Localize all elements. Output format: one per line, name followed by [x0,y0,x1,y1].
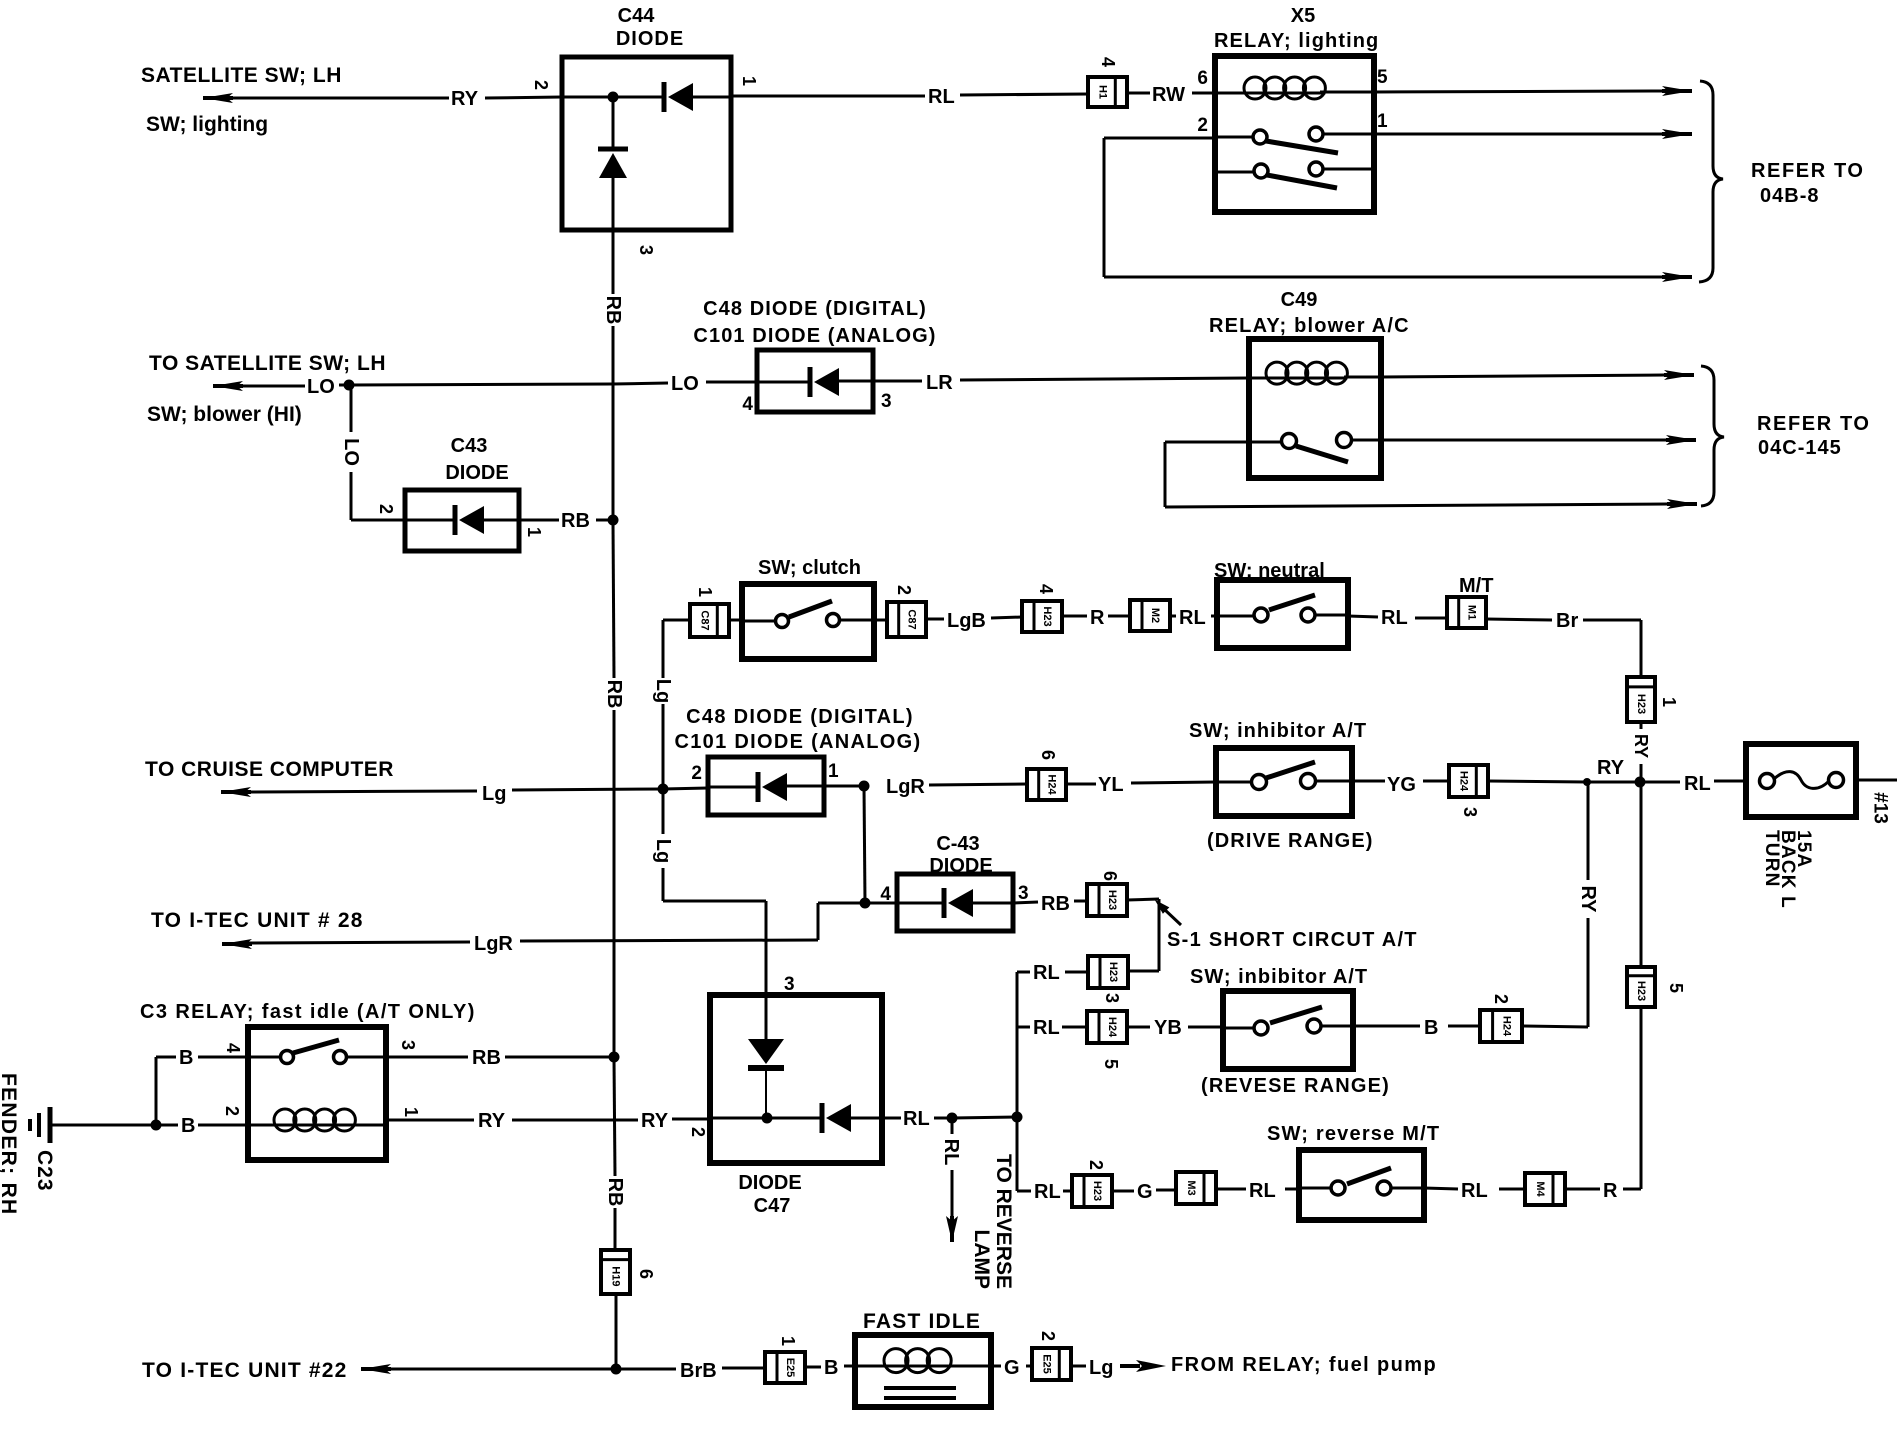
wire label RB (C43 row) [561,510,590,532]
svg-text:C23: C23 [33,1150,56,1192]
svg-text:RB: RB [603,680,625,709]
wire label Lg (vertical 2) [652,839,674,863]
svg-text:3: 3 [1018,883,1029,904]
wire label R (reverse out) [1603,1180,1618,1202]
relay C49 contact [1249,433,1381,463]
svg-text:C101 DIODE (ANALOG): C101 DIODE (ANALOG) [675,731,922,753]
relay X5 coil [1215,77,1374,99]
svg-text:LO: LO [340,438,362,466]
connector M2 [1130,600,1170,631]
svg-text:DIODE: DIODE [616,28,684,50]
svg-text:1: 1 [695,587,715,597]
svg-text:2: 2 [376,504,396,514]
svg-text:SW; inhibitor A/T: SW; inhibitor A/T [1189,720,1367,742]
svg-text:1: 1 [778,1336,798,1346]
pin 5 of H24 (reverse-range in) [1101,1059,1121,1069]
wire Lg vertical (junction down) [662,791,665,901]
connector H23 (reverse) [1072,1175,1112,1207]
wire RL from C44 to H1 [731,94,1088,96]
svg-text:C-43: C-43 [936,833,979,855]
pin 2 of C87 (right) [894,585,914,595]
diode C48/C101 label 2 [675,706,922,753]
junction dot reverse lamp [947,1113,958,1124]
wire label RL (S1) [1033,962,1060,984]
svg-text:2: 2 [1038,1331,1058,1341]
wire label RL (C47 out) [903,1108,930,1130]
switch SW; neutral box [1217,580,1348,648]
switch SW; neutral label [1214,560,1325,582]
svg-text:C48 DIODE (DIGITAL): C48 DIODE (DIGITAL) [703,298,927,320]
svg-text:4: 4 [223,1043,243,1053]
relay C3 contact [248,1040,386,1064]
wire B to reverse-range box [1353,1025,1480,1028]
wire loop from X5 pin 2 [1104,138,1692,282]
switch SW; inhibitor A/T label [1189,720,1367,742]
junction dot RB/C3 [609,1052,620,1063]
diode C43 element [405,505,519,535]
label FROM RELAY; fuel pump [1171,1354,1437,1376]
relay X5 contact row 2 [1215,162,1374,188]
wire RL to reverse box [1216,1188,1299,1191]
wire C3 pin1 to C47 pin2 [386,1119,710,1120]
wire label LO (vertical) [340,438,362,466]
wire RY to C44 pin 2 [485,97,562,98]
label TO REVERSE LAMP [970,1154,1015,1289]
arrow from relay fuel pump [1120,1360,1166,1372]
svg-text:H24: H24 [1457,771,1469,792]
switch clutch contacts [742,601,874,628]
svg-text:REFER TO: REFER TO [1751,160,1865,182]
connector H24 (inhibitor out) [1449,765,1488,797]
wire junction to RL vertical [952,1117,1017,1118]
switch SW; reverse M/T box [1299,1150,1424,1220]
wire label RW [1152,84,1185,106]
svg-text:TO SATELLITE SW; LH: TO SATELLITE SW; LH [149,352,386,375]
wire LO vertical [351,385,405,520]
wire label RL (H24-5) [1033,1017,1060,1039]
heater FAST IDLE coil [855,1349,991,1373]
wire RB vertical (lower) [614,1059,615,1250]
wire label LR [926,372,953,394]
svg-text:RL: RL [940,1139,962,1166]
svg-text:1: 1 [1377,111,1388,132]
switch SW; inhibitor A/T box [1216,748,1352,816]
relay C49 box [1249,339,1381,478]
svg-text:#13: #13 [1870,792,1891,824]
svg-text:RY: RY [1597,757,1625,779]
pin 3 of C3 [398,1040,418,1050]
diode C48 element (cruise) [708,772,824,802]
pin 1 of H23 (Br drop) [1659,697,1679,707]
wire LO to C48 pin 4 [706,381,757,384]
svg-text:FAST IDLE: FAST IDLE [863,1310,981,1333]
svg-text:H23: H23 [1041,606,1053,626]
svg-text:SW; reverse M/T: SW; reverse M/T [1267,1123,1440,1145]
wire to I-TEC 28 (arrow) [222,939,470,949]
pin 4 of H1 [1098,57,1118,67]
pin 1 of C44 [739,76,759,86]
svg-text:H19: H19 [610,1266,622,1286]
wire Lg vertical (clutch to junction) [662,620,665,789]
svg-text:M2: M2 [1149,608,1161,623]
svg-text:M4: M4 [1534,1181,1546,1197]
svg-text:LgB: LgB [947,610,986,632]
pin 2 of H23 (reverse) [1086,1160,1106,1170]
label M/T [1459,575,1493,597]
svg-text:RL: RL [1249,1180,1276,1202]
svg-text:TO I-TEC UNIT #22: TO I-TEC UNIT #22 [142,1359,348,1382]
junction dot Lg [658,784,669,795]
pin 1 of C43 [524,527,544,537]
wire RL arrow to reverse lamp [946,1118,958,1242]
relay C3 coil [248,1109,386,1131]
heater FAST IDLE label [863,1310,981,1333]
wire RL to neutral box [1170,615,1217,618]
wire label LO 2 [671,373,699,395]
wire loop from C49 contact [1165,442,1697,509]
label (DRIVE RANGE) [1207,830,1374,852]
label FENDER; RH [0,1073,20,1216]
wire label RY (above line) [1597,757,1625,779]
pin 3 of C-43 [1018,883,1029,904]
node TO I-TEC UNIT #22 label [142,1359,348,1382]
wire H24-3 to RY junction [1488,781,1587,782]
svg-text:6: 6 [636,1269,656,1279]
svg-text:RY: RY [1631,734,1651,758]
svg-text:(REVESE RANGE): (REVESE RANGE) [1201,1075,1390,1097]
svg-text:YB: YB [1154,1017,1182,1039]
wire label RB (vertical 2) [603,680,625,709]
svg-text:RB: RB [561,510,590,532]
connector E25 (fast idle out) [1032,1348,1071,1380]
svg-text:H24: H24 [1106,1017,1118,1038]
switch SW; clutch label [758,557,861,579]
svg-text:YL: YL [1098,774,1124,796]
wire RB to H23-6 [1013,901,1087,903]
wire label RL (reverse lamp) [940,1139,962,1166]
svg-text:RL: RL [1034,1181,1061,1203]
svg-text:04C-145: 04C-145 [1758,437,1842,459]
relay X5 label [1214,5,1379,52]
wire RL to fuse [1714,780,1746,783]
pin 3 of C44 [636,245,656,255]
svg-text:B: B [1424,1017,1438,1039]
connector H23 (neutral) [1022,601,1062,632]
svg-text:FENDER; RH: FENDER; RH [0,1073,20,1216]
wire label LO [307,376,335,398]
label 15A BACK L TURN [1761,830,1814,909]
diode C-43 box [897,874,1013,931]
svg-text:5: 5 [1666,983,1686,993]
connector M1 [1447,597,1486,628]
wire C49 contact to refer-to arrow [1381,435,1696,445]
junction dot B [151,1120,162,1131]
wire label B (reverse-range) [1424,1017,1438,1039]
wire C87 to clutch box [729,619,742,622]
wire H23-1 to RY junction [1640,722,1643,782]
svg-text:H23: H23 [1635,981,1647,1001]
svg-text:R: R [1603,1180,1618,1202]
wire crossing (no dot) at RL/H24-5 row [0,0,1,1]
wire label RL (reverse in) [1249,1180,1276,1202]
svg-text:H23: H23 [1107,962,1119,982]
wire label Br [1556,610,1578,632]
svg-text:C101 DIODE (ANALOG): C101 DIODE (ANALOG) [693,325,936,347]
connector H23 (Br drop) [1627,677,1655,722]
svg-text:LgR: LgR [474,933,513,955]
junction dot C-43 pin4 [860,898,871,909]
svg-text:BrB: BrB [680,1360,717,1382]
wire RB vertical (mid) [613,522,614,1055]
svg-text:LO: LO [671,373,699,395]
wire RY vertical (to H24-2) [1522,782,1588,1027]
svg-text:2: 2 [222,1106,242,1116]
svg-text:LgR: LgR [886,776,925,798]
pin 4 of C3 [223,1043,243,1053]
diode C44 element B (vertical) [598,97,628,230]
switch reverse contacts [1299,1168,1424,1195]
wire label RL (reverse out) [1461,1180,1488,1202]
diode C44 element A (horizontal) [664,82,731,112]
wire B to fast idle box [805,1366,855,1367]
svg-text:SW; lighting: SW; lighting [146,113,268,136]
svg-text:SW; clutch: SW; clutch [758,557,861,579]
svg-text:Lg: Lg [652,679,674,703]
svg-text:FROM RELAY; fuel pump: FROM RELAY; fuel pump [1171,1354,1437,1376]
pin 5 of H23 (R drop) [1666,983,1686,993]
wire label RL (neutral in) [1179,607,1206,629]
svg-text:C87: C87 [906,609,918,629]
wire YB to H24-5 [1127,1026,1223,1029]
wire C43 to RB junction [519,519,613,522]
pin 1 of C3 [401,1107,421,1117]
svg-text:SATELLITE SW; LH: SATELLITE SW; LH [141,64,342,87]
svg-text:B: B [824,1357,838,1379]
wire left vertical to H23-2 [1017,1117,1072,1191]
relay X5 box [1215,56,1374,212]
svg-text:5: 5 [1101,1059,1121,1069]
wire LR to C49 [873,378,1249,381]
svg-text:SW; blower (HI): SW; blower (HI) [147,403,302,426]
svg-text:RW: RW [1152,84,1185,106]
svg-text:M1: M1 [1466,605,1478,620]
wire label R (neutral) [1090,607,1105,629]
wire to satellite sw (arrow) [203,93,449,103]
node TO SATELLITE SW; LH label [149,352,386,375]
relay C49 label [1209,289,1410,337]
diode C48 element (blower) [757,367,873,397]
pin 4 of C48 (blower) [742,394,753,415]
svg-text:3: 3 [784,974,795,995]
arrow S-1 pointer [1156,901,1181,925]
wire Lg to C47 pin 3 [663,901,766,995]
wire LgR vertical [864,786,865,903]
svg-text:B: B [181,1115,195,1137]
svg-text:S-1 SHORT CIRCUT A/T: S-1 SHORT CIRCUT A/T [1167,929,1418,951]
diode C48/C101 box (cruise) [708,757,824,815]
svg-text:H1: H1 [1096,85,1108,99]
heater FAST IDLE element bars [884,1388,956,1398]
wire label B (pin4) [179,1047,193,1069]
wire to satellite sw blower (arrow) [213,381,305,391]
wire RW to X5 pin 6 [1127,92,1215,95]
junction dot RL vertical [1012,1112,1023,1123]
wire H19 to I-TEC junction [615,1294,618,1369]
wire label LgR [886,776,925,798]
wire BrB to E25 [616,1368,765,1369]
wire label B (pin2) [181,1115,195,1137]
wire B to C3 pin 2 [156,1124,248,1127]
wire G to M3 [1112,1190,1176,1191]
svg-text:RB: RB [1041,893,1070,915]
brace refer-to 04C-145 [1701,366,1724,506]
svg-text:Lg: Lg [482,783,506,805]
wire LgR I-TEC28 segment [520,903,865,941]
junction dot I-TEC22 [611,1364,622,1375]
wire RY junction to RL [1587,781,1680,784]
svg-text:E25: E25 [784,1358,796,1378]
svg-text:C43: C43 [451,435,488,457]
wire label LgR (I-TEC28) [474,933,513,955]
wire label Lg [482,783,506,805]
pin 2 of C43 [376,504,396,514]
junction dot LO [344,380,355,391]
pin 6 of H19 [636,1269,656,1279]
wire Br to H23-1 [1486,619,1641,677]
svg-text:YG: YG [1387,774,1416,796]
svg-text:RB: RB [602,296,624,325]
relay X5 contact row 1 [1215,127,1374,153]
node TO I-TEC UNIT # 28 label [151,909,364,932]
node SW; lighting label [146,113,268,136]
svg-text:RY: RY [1577,885,1599,913]
wire H23-5 to RY junction [1640,782,1643,967]
switch inhibitor contacts [1216,762,1352,790]
wire label Lg (fast idle) [1089,1357,1113,1379]
svg-text:H24: H24 [1046,774,1058,795]
svg-text:3: 3 [881,391,892,412]
wire label RY (C3 out) [478,1110,506,1132]
wire label BrB [680,1360,717,1382]
svg-text:1: 1 [828,761,839,782]
label (REVESE RANGE) [1201,1075,1390,1097]
connector H24 (reverse-range out) [1480,1010,1522,1042]
wire label RY (2) [641,1110,669,1132]
wire X5 pin1 to refer-to arrow [1374,129,1692,139]
svg-text:R: R [1090,607,1105,629]
pin 2 of C47 [688,1127,708,1137]
svg-text:1: 1 [401,1107,421,1117]
diode C47 label [738,1172,801,1217]
svg-text:TO I-TEC UNIT # 28: TO I-TEC UNIT # 28 [151,909,364,932]
relay C3 box [248,1027,386,1160]
connector M3 [1176,1172,1216,1204]
pin 3 of C47 [784,974,795,995]
svg-text:6: 6 [1038,750,1058,760]
diode C44 box [562,57,731,230]
svg-text:4: 4 [742,394,753,415]
connector H23 (S1 top) [1087,884,1127,916]
svg-text:RELAY; blower A/C: RELAY; blower A/C [1209,315,1410,337]
pin 4 of H23 (neutral) [1036,584,1056,594]
wire label G (reverse) [1137,1181,1153,1203]
svg-text:2: 2 [1197,115,1208,136]
pin 3 of C48 (blower) [881,391,892,412]
svg-text:E25: E25 [1040,1354,1052,1374]
wire C48 to LgR junction [824,785,864,788]
svg-text:6: 6 [1100,871,1120,881]
svg-text:B: B [179,1047,193,1069]
connector M4 [1525,1173,1565,1205]
svg-text:RL: RL [1461,1180,1488,1202]
junction dot RY big [1635,777,1646,788]
wire Lg corner to C87 [663,619,690,622]
svg-text:C47: C47 [754,1195,791,1217]
wire label Lg (vertical 1) [652,679,674,703]
svg-text:2: 2 [894,585,914,595]
node SATELLITE SW; LH label [141,64,342,87]
connector E25 (fast idle in) [765,1352,805,1383]
svg-text:H23: H23 [1091,1181,1103,1201]
svg-text:04B-8: 04B-8 [1760,185,1819,207]
svg-text:G: G [1137,1181,1153,1203]
wire C3 pin3 to RB junction [386,1056,614,1059]
svg-text:5: 5 [1377,67,1388,88]
svg-text:DIODE: DIODE [738,1172,801,1194]
wire label RL (reverse row) [1034,1181,1061,1203]
svg-text:RY: RY [641,1110,669,1132]
wire G to E25-2 [991,1365,1032,1368]
wire label RY [451,88,479,110]
svg-text:RL: RL [1684,773,1711,795]
svg-text:RY: RY [478,1110,506,1132]
svg-text:3: 3 [1102,993,1122,1003]
diode C48/C101 label [693,298,936,347]
pin 6 of H23 (S1 top) [1100,871,1120,881]
pin 2 of X5 [1197,115,1208,136]
diode C47 box [710,995,882,1163]
wire to I-TEC 22 (arrow) [361,1364,616,1374]
connector H1 [1088,77,1127,107]
svg-text:3: 3 [636,245,656,255]
svg-text:C49: C49 [1281,289,1318,311]
svg-text:RL: RL [1033,962,1060,984]
label C23 [33,1150,56,1192]
wire inside C44 [562,96,664,99]
svg-text:Lg: Lg [652,839,674,863]
wire Lg stub [1071,1365,1086,1368]
svg-text:Lg: Lg [1089,1357,1113,1379]
wire LgB to H23-4 [926,617,1022,619]
svg-text:TO CRUISE COMPUTER: TO CRUISE COMPUTER [145,758,394,781]
diode C47 element A (vertical) [748,995,784,1118]
connector C87 (left) [690,604,729,637]
svg-text:RL: RL [928,86,955,108]
pin 1 of C48 (cruise) [828,761,839,782]
wire H23-6 to S1 loop [1127,899,1159,971]
brace refer-to 04B-8 [1699,81,1723,282]
label S-1 SHORT CIRCUT A/T [1167,929,1418,951]
heater FAST IDLE box [855,1335,991,1407]
connector H24 (reverse-range in) [1087,1011,1127,1043]
svg-text:REFER TO: REFER TO [1757,413,1871,435]
pin 2 of C3 [222,1106,242,1116]
wire reverse box to M4 [1424,1188,1525,1189]
pin 3 of H24 (inhibitor out) [1460,807,1480,817]
pin 1 of X5 [1377,111,1388,132]
pin 2 of C48 (cruise) [691,763,702,784]
svg-text:2: 2 [1086,1160,1106,1170]
